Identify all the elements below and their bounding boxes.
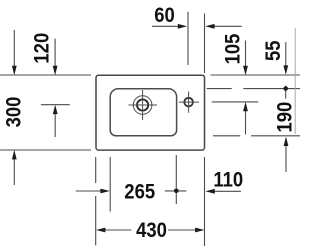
- arrow up at overflow centerline (105 dim): [243, 102, 248, 111]
- dim 105 lower arrow line: [245, 111, 247, 134]
- extension line: back edge left: [0, 74, 91, 76]
- extension line: back edge right: [211, 74, 301, 76]
- dim 190 dot stub: [285, 86, 287, 99]
- extension line: rim right edge above: [204, 14, 206, 74]
- svg-text:60: 60: [154, 4, 175, 27]
- dim 300 lower arrow line: [13, 159, 15, 185]
- dim 120 upper arrow line: [54, 39, 56, 66]
- extension line: overflow center above: [187, 12, 189, 65]
- arrow up at faucet centerline (120 dim): [53, 105, 58, 114]
- dim 190 lower arrow line: [285, 146, 287, 172]
- arrow down at back edge (300 dim): [12, 66, 17, 75]
- extension line: rim left edge below: [95, 157, 97, 246]
- arrow left at rim left ext (430 dim): [96, 228, 105, 233]
- dim 430 line left: [105, 229, 131, 231]
- arrow left at rim right ext (110 dim): [205, 189, 214, 194]
- dim 110 arrow tail: [215, 190, 241, 192]
- dim 265/110 line through dot: [165, 190, 187, 192]
- arrow down at back edge (55 dim): [283, 65, 288, 74]
- extension line: faucet centerline left: [41, 104, 70, 106]
- extension line: rim right edge below: [204, 157, 206, 246]
- dim 55 upper arrow line: [285, 42, 287, 66]
- dot marker bowl right (265/110 dims): [174, 189, 179, 194]
- faucet hole inner circle: [137, 99, 148, 110]
- extension line: bowl right edge below: [175, 155, 177, 204]
- dim 60 line right part: [214, 25, 242, 27]
- overflow hole crosshair: [179, 92, 199, 113]
- faucet hole crosshair: [129, 90, 158, 120]
- dim 60 line left part: [152, 25, 179, 27]
- extension line: front edge left: [0, 149, 91, 151]
- arrow right at bowl left ext (265 dim): [100, 189, 109, 194]
- svg-text:105: 105: [221, 34, 244, 65]
- basin outer rim (top view): [96, 75, 205, 150]
- svg-text:430: 430: [136, 219, 167, 242]
- basin bowl (inner rounded rect): [110, 89, 176, 136]
- extension line: bowl bottom right: [213, 135, 300, 137]
- svg-text:110: 110: [213, 168, 243, 191]
- extension line: bowl top right: [207, 88, 300, 90]
- arrow right at overflow center ext (60 dim): [178, 24, 187, 29]
- svg-text:55: 55: [262, 40, 285, 61]
- svg-text:300: 300: [3, 97, 26, 128]
- svg-text:120: 120: [31, 33, 54, 64]
- dim 430 line right: [168, 229, 196, 231]
- arrow right at rim right ext (430 dim): [195, 228, 204, 233]
- dot marker bowl top (55/190 dims): [283, 86, 288, 91]
- dim 105 upper arrow line: [245, 41, 247, 67]
- extension line: overflow centerline right: [212, 101, 259, 103]
- extension line: bowl left edge below: [109, 157, 111, 212]
- arrow down at back edge (105 dim): [243, 66, 248, 75]
- dim 265 line with arrow tail: [76, 190, 101, 192]
- svg-text:190: 190: [274, 102, 297, 133]
- arrow down at back edge (120 dim): [53, 66, 58, 75]
- arrow left at rim right ext (60 dim): [205, 24, 214, 29]
- arrow up at bowl bottom (190 dim): [284, 137, 289, 146]
- dim 300 upper arrow line: [13, 30, 15, 66]
- arrow up at front edge (300 dim): [12, 150, 17, 159]
- dim 120 lower arrow line: [54, 113, 56, 137]
- svg-text:265: 265: [124, 180, 155, 203]
- overflow hole circle: [184, 98, 193, 107]
- viewport edge line: [294, 28, 296, 134]
- faucet hole outer circle: [133, 96, 152, 115]
